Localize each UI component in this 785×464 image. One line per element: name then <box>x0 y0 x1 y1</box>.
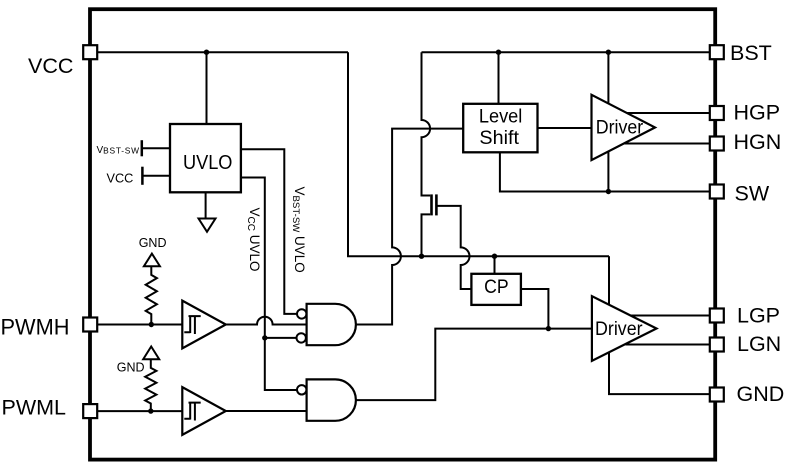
wire Level Shift top lead <box>498 52 500 104</box>
node rail-CP junction <box>492 254 497 259</box>
wire BST bus <box>422 51 711 53</box>
node PWMH-resistor junction <box>149 322 154 327</box>
UVLO block U1 <box>170 124 241 192</box>
wire HGP output <box>627 112 710 114</box>
wire UVLO top lead <box>206 52 208 124</box>
pin BST <box>710 45 724 59</box>
wire PWMH input <box>97 324 182 326</box>
svg-text:Level: Level <box>479 105 523 127</box>
wire HGN output <box>625 143 711 145</box>
svg-text:HGP: HGP <box>734 101 781 125</box>
svg-text:VBST-SW: VBST-SW <box>97 145 140 156</box>
svg-text:PWMH: PWMH <box>1 314 70 339</box>
driver U7 (low side) <box>592 296 657 361</box>
svg-text:GND: GND <box>737 382 785 406</box>
transistor Q1 bootstrap switch channel bar <box>430 194 433 215</box>
wire VCC drop to rail <box>348 52 609 256</box>
transistor Q1 gate bar <box>435 194 438 215</box>
wire BST drop to bootstrap switch drain (with hop) <box>422 52 431 195</box>
node Q1 source rail junction <box>419 254 424 259</box>
svg-text:BST: BST <box>730 41 772 65</box>
NAND gate G1 <box>307 304 356 345</box>
node BST-driver junction <box>606 50 611 55</box>
wire Schmitt1 output to NAND1 (hop over UVLO line) <box>226 317 307 325</box>
Schmitt buffer U3 <box>182 387 226 435</box>
UVLO input lead VCC with terminal bar <box>142 175 170 177</box>
CP block U5 <box>471 274 521 305</box>
pin VCC <box>83 45 97 59</box>
svg-text:Driver: Driver <box>595 319 643 340</box>
wire NAND1 lower input from VCC UVLO <box>265 337 297 339</box>
svg-text:CP: CP <box>484 277 509 298</box>
svg-text:PWML: PWML <box>2 396 67 420</box>
svg-text:GND: GND <box>117 360 145 374</box>
pin LGN <box>710 338 724 352</box>
pin SW <box>710 185 724 199</box>
pin HGP <box>710 106 724 120</box>
wire high driver power lead <box>607 52 609 103</box>
wire LGN output <box>626 344 711 346</box>
node PWML-resistor junction <box>148 408 153 413</box>
UVLO input lead VBST-SW with terminal bar <box>142 147 170 149</box>
driver U6 (high side) <box>592 95 656 160</box>
wire Level Shift output to high driver <box>538 127 592 129</box>
svg-text:SW: SW <box>735 182 770 206</box>
Schmitt buffer U2 <box>182 301 226 349</box>
G2 input bubble <box>297 385 306 394</box>
wire Level Shift bottom to SW <box>500 152 710 191</box>
wire low driver ground to GND pin <box>609 353 710 395</box>
wire PWML input <box>97 410 182 412</box>
wire NAND1 output to Level Shift (with hop over BST drop) <box>356 129 463 325</box>
wire Schmitt2 output to NAND2 <box>226 410 307 412</box>
wire VCC bus top <box>97 51 348 53</box>
IC boundary border <box>90 9 715 459</box>
wire rail to low driver power <box>608 256 610 304</box>
svg-text:VCC: VCC <box>28 54 73 78</box>
resistor R1 pulldown <box>146 266 157 325</box>
ground arrow GND1 <box>144 254 160 267</box>
wire Q1 source to VCC rail <box>422 214 431 256</box>
node VCC-UVLO junction <box>204 50 209 55</box>
svg-text:UVLO: UVLO <box>183 151 233 174</box>
svg-text:Driver: Driver <box>596 118 644 139</box>
svg-text:GND: GND <box>139 236 167 250</box>
UVLO ground lead and arrow <box>205 192 207 218</box>
Level Shift block U4 <box>463 104 537 153</box>
pin LGP <box>710 309 724 323</box>
svg-text:LGN: LGN <box>737 332 781 356</box>
resistor R2 pulldown <box>145 359 156 411</box>
wire CP output to low driver input <box>521 289 549 329</box>
wire LGP output <box>629 315 711 317</box>
wire UVLO VCC UVLO output to NAND gates <box>241 178 297 391</box>
node VCC-UVLO line junction <box>262 335 267 340</box>
node BST-LevelShift junction <box>496 50 501 55</box>
G1 input bubble bottom <box>297 333 306 342</box>
ground arrow GND2 <box>143 347 159 360</box>
wire NAND2 output to low driver <box>356 329 592 401</box>
node driver-SW junction <box>606 189 611 194</box>
svg-text:Shift: Shift <box>479 127 519 149</box>
pin GND <box>710 388 724 402</box>
pin PWML <box>83 404 97 418</box>
svg-text:VCC: VCC <box>107 171 134 185</box>
G1 input bubble top <box>297 309 306 318</box>
NAND gate G2 <box>307 379 356 420</box>
wire UVLO VBST-SW UVLO output to NAND1 <box>241 149 297 314</box>
wire Q1 gate lead to CP (with hop over rail) <box>438 206 472 289</box>
wire high driver ground lead <box>607 152 609 192</box>
node CP-driver input junction <box>546 326 551 331</box>
pin HGN <box>710 137 724 151</box>
pin PWMH <box>83 318 97 332</box>
svg-text:HGN: HGN <box>734 130 782 154</box>
svg-text:LGP: LGP <box>737 304 780 328</box>
wire CP top lead <box>494 256 496 274</box>
